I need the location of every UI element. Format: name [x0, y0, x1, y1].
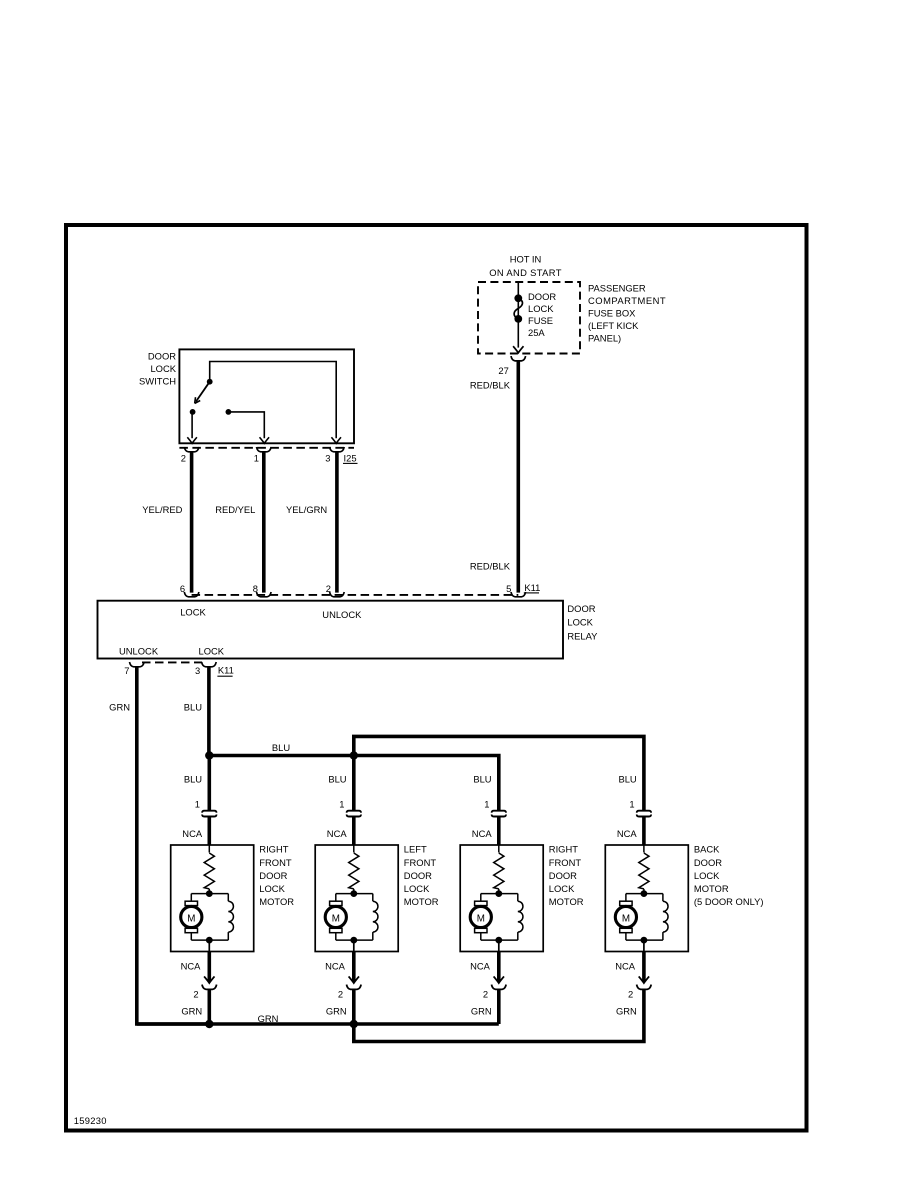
svg-text:BACK: BACK: [694, 844, 720, 855]
svg-text:SWITCH: SWITCH: [139, 375, 176, 386]
svg-text:MOTOR: MOTOR: [259, 896, 294, 907]
svg-text:NCA: NCA: [470, 960, 491, 971]
svg-text:1: 1: [629, 798, 634, 809]
svg-text:M: M: [187, 913, 195, 924]
svg-text:DOOR: DOOR: [694, 857, 722, 868]
svg-text:FRONT: FRONT: [259, 857, 292, 868]
svg-text:DOOR: DOOR: [528, 291, 556, 302]
svg-text:LEFT: LEFT: [404, 844, 427, 855]
svg-text:BLU: BLU: [272, 742, 290, 753]
svg-text:2: 2: [181, 452, 186, 463]
svg-text:K11: K11: [524, 582, 540, 593]
svg-text:NCA: NCA: [327, 828, 348, 839]
svg-text:3: 3: [325, 452, 330, 463]
svg-text:UNLOCK: UNLOCK: [322, 609, 362, 620]
svg-text:NCA: NCA: [617, 828, 638, 839]
svg-text:HOT IN: HOT IN: [510, 253, 542, 264]
svg-text:5: 5: [506, 583, 511, 594]
svg-text:7: 7: [124, 665, 129, 676]
svg-text:GRN: GRN: [181, 1005, 202, 1016]
svg-text:BLU: BLU: [328, 773, 346, 784]
svg-text:NCA: NCA: [182, 828, 203, 839]
svg-text:I25: I25: [344, 452, 357, 463]
svg-text:1: 1: [339, 798, 344, 809]
svg-text:LOCK: LOCK: [528, 303, 554, 314]
svg-text:FUSE: FUSE: [528, 315, 553, 326]
svg-text:8: 8: [253, 583, 258, 594]
svg-text:NCA: NCA: [472, 828, 493, 839]
svg-text:GRN: GRN: [258, 1013, 279, 1024]
svg-text:DOOR: DOOR: [259, 870, 287, 881]
svg-text:DOOR: DOOR: [148, 350, 176, 361]
svg-text:GRN: GRN: [109, 701, 130, 712]
svg-text:DOOR: DOOR: [549, 870, 577, 881]
svg-text:RED/YEL: RED/YEL: [215, 504, 255, 515]
svg-text:NCA: NCA: [325, 960, 346, 971]
svg-text:MOTOR: MOTOR: [694, 883, 729, 894]
svg-text:ON AND START: ON AND START: [489, 267, 562, 278]
svg-text:M: M: [622, 913, 630, 924]
svg-text:2: 2: [338, 989, 343, 1000]
svg-text:COMPARTMENT: COMPARTMENT: [588, 295, 666, 306]
svg-text:159230: 159230: [74, 1115, 107, 1126]
svg-text:DOOR: DOOR: [567, 603, 595, 614]
svg-text:3: 3: [195, 665, 200, 676]
svg-text:2: 2: [628, 989, 633, 1000]
svg-text:2: 2: [193, 989, 198, 1000]
svg-text:2: 2: [483, 989, 488, 1000]
svg-text:M: M: [332, 913, 340, 924]
svg-text:GRN: GRN: [616, 1005, 637, 1016]
svg-text:PANEL): PANEL): [588, 332, 621, 343]
svg-text:LOCK: LOCK: [150, 363, 176, 374]
svg-text:RED/BLK: RED/BLK: [470, 380, 511, 391]
svg-text:BLU: BLU: [184, 773, 202, 784]
svg-text:LOCK: LOCK: [694, 870, 720, 881]
svg-text:NCA: NCA: [181, 960, 202, 971]
svg-text:K11: K11: [218, 665, 234, 676]
svg-text:LOCK: LOCK: [549, 883, 575, 894]
svg-text:1: 1: [195, 798, 200, 809]
svg-text:GRN: GRN: [326, 1005, 347, 1016]
svg-text:PASSENGER: PASSENGER: [588, 282, 646, 293]
svg-text:BLU: BLU: [473, 773, 491, 784]
svg-text:LOCK: LOCK: [567, 617, 593, 628]
svg-text:6: 6: [180, 583, 185, 594]
svg-text:27: 27: [498, 365, 508, 376]
svg-text:FRONT: FRONT: [549, 857, 582, 868]
svg-text:MOTOR: MOTOR: [404, 896, 439, 907]
svg-text:1: 1: [484, 798, 489, 809]
svg-text:BLU: BLU: [618, 773, 636, 784]
svg-text:(LEFT KICK: (LEFT KICK: [588, 320, 639, 331]
svg-text:FUSE BOX: FUSE BOX: [588, 307, 636, 318]
svg-text:MOTOR: MOTOR: [549, 896, 584, 907]
svg-text:FRONT: FRONT: [404, 857, 437, 868]
svg-text:RIGHT: RIGHT: [259, 844, 288, 855]
svg-text:M: M: [477, 913, 485, 924]
svg-text:LOCK: LOCK: [259, 883, 285, 894]
svg-text:DOOR: DOOR: [404, 870, 432, 881]
svg-text:1: 1: [254, 452, 259, 463]
svg-text:2: 2: [326, 583, 331, 594]
svg-text:RIGHT: RIGHT: [549, 844, 578, 855]
svg-text:LOCK: LOCK: [404, 883, 430, 894]
svg-text:YEL/GRN: YEL/GRN: [286, 504, 327, 515]
svg-text:25A: 25A: [528, 327, 545, 338]
svg-text:BLU: BLU: [184, 701, 202, 712]
svg-text:NCA: NCA: [615, 960, 636, 971]
svg-text:RELAY: RELAY: [567, 630, 598, 641]
svg-text:LOCK: LOCK: [199, 645, 225, 656]
svg-text:UNLOCK: UNLOCK: [119, 645, 159, 656]
svg-text:GRN: GRN: [471, 1005, 492, 1016]
svg-text:LOCK: LOCK: [180, 606, 206, 617]
svg-text:RED/BLK: RED/BLK: [470, 560, 511, 571]
svg-text:YEL/RED: YEL/RED: [142, 504, 182, 515]
svg-text:(5 DOOR ONLY): (5 DOOR ONLY): [694, 896, 764, 907]
